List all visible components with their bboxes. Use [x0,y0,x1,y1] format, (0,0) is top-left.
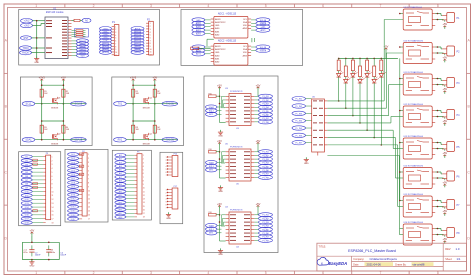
svg-text:DO5: DO5 [71,170,75,172]
net flags around U2 [192,18,270,36]
connector P14 header [166,153,178,177]
svg-text:TXD0: TXD0 [22,47,29,50]
group box connector P3 [19,152,61,226]
wire relay K1 to terminal [435,13,443,21]
svg-text:8: 8 [143,180,144,182]
svg-text:8: 8 [52,184,53,186]
wire expander left net [219,145,258,178]
svg-text:8: 8 [437,4,439,8]
svg-text:3: 3 [52,164,53,166]
svg-text:DO1: DO1 [71,154,75,156]
svg-text:DO11: DO11 [71,195,76,197]
svg-text:16: 16 [143,209,145,211]
transistor Q1 [143,97,152,110]
power flag +5V LED bus [384,45,389,59]
svg-text:1: 1 [115,26,116,28]
net flag RX1 [114,137,127,142]
svg-text:12: 12 [52,199,54,201]
net flag SDA1B [71,137,87,142]
power flag +5V right of U4 [256,202,261,209]
power flag +3V3 [39,76,46,83]
svg-text:14: 14 [143,202,145,204]
svg-text:BSS138: BSS138 [51,108,58,110]
rev text [445,247,460,251]
svg-text:5: 5 [52,172,53,174]
svg-text:DO13: DO13 [71,203,76,205]
svg-text:7: 7 [150,40,151,42]
svg-text:AI13: AI13 [119,198,123,201]
resistor R13 LED series [351,58,354,73]
wire LED5 to driver row [366,77,368,131]
svg-text:16: 16 [52,215,54,217]
svg-text:AI9: AI9 [119,183,122,186]
svg-text:18: 18 [143,217,145,219]
op-amp U6 ULN2003 [312,97,328,156]
svg-text:8: 8 [88,182,89,184]
power flag +5V [152,76,157,83]
svg-text:CrisElectronicProjects: CrisElectronicProjects [370,257,398,261]
svg-text:100nF: 100nF [60,255,66,257]
svg-text:AI4: AI4 [119,165,122,168]
capacitor C3 decoupling [46,245,67,256]
relay K2 [403,39,435,63]
svg-text:7: 7 [379,4,381,8]
svg-text:Q2: Q2 [58,134,61,136]
svg-text:6: 6 [150,37,151,39]
ground under U1 left rail [34,56,39,64]
svg-text:SCL1: SCL1 [26,103,33,106]
svg-text:PL_IN4: PL_IN4 [295,121,303,123]
group box I/O expanders [204,76,278,253]
wire relay K8 to terminal [435,228,443,236]
svg-text:AI2: AI2 [119,158,122,161]
svg-text:ADC2 - ADS1115: ADC2 - ADS1115 [218,39,237,42]
wire level shifter net [126,82,178,140]
wire LED1 to driver row [338,77,340,102]
svg-text:PL_IN2: PL_IN2 [295,106,303,108]
net flag column right of U4 [254,213,272,243]
wire power filter loop [22,235,59,260]
svg-text:DI17: DI17 [25,219,29,221]
LED D2 [344,77,351,83]
svg-text:4: 4 [207,4,209,8]
resistor R_A0 and net flag A0 [72,18,92,22]
svg-text:6: 6 [322,271,324,275]
svg-text:470u: 470u [23,252,27,254]
wire +5V LED bus [338,58,398,60]
svg-text:DI4: DI4 [25,168,28,170]
svg-text:DO17: DO17 [71,219,76,221]
svg-text:Sheet:: Sheet: [445,258,452,261]
group box level shifter [20,77,92,146]
svg-text:11: 11 [52,195,54,197]
svg-text:4: 4 [207,271,209,275]
svg-text:U15 RUT24AF/ZB-H4: U15 RUT24AF/ZB-H4 [404,193,424,196]
svg-text:REV:: REV: [445,248,451,251]
svg-text:1: 1 [35,4,37,8]
relay K1 [403,6,435,30]
svg-text:BSS138: BSS138 [143,144,150,146]
svg-text:9: 9 [88,186,89,188]
svg-text:AI15: AI15 [119,205,123,208]
svg-text:R10: R10 [209,149,212,151]
resistor R2 pull-up [153,89,161,97]
svg-text:10: 10 [88,190,90,192]
power flag +5V relay K8 [442,235,447,244]
net flag TXD [20,46,32,50]
net flag TX1 [114,101,127,106]
title block frame [317,243,467,271]
op-amp U3 ADS1115 [211,39,251,65]
net flag column PL_IN [292,97,312,145]
resistor R1 pull-up [132,89,140,97]
svg-text:DO4: DO4 [71,166,75,168]
wire relay K6 to terminal [435,171,443,179]
svg-text:6: 6 [166,172,167,174]
svg-text:DI8: DI8 [25,184,28,186]
wire level shifter net [35,82,87,140]
svg-text:SDA1B: SDA1B [260,49,267,52]
svg-text:Q2: Q2 [149,134,152,136]
svg-text:1: 1 [143,155,144,157]
resistor R2 pull-up [62,89,70,97]
connector P1 header [112,21,119,57]
svg-text:TITLE:: TITLE: [319,245,327,248]
svg-text:2: 2 [166,160,167,162]
svg-text:2: 2 [166,192,167,194]
net flag SCL1B [71,101,87,106]
svg-text:15: 15 [143,206,145,208]
svg-text:5: 5 [166,169,167,171]
svg-text:4: 4 [143,166,144,168]
wire relay K5 to terminal [435,142,443,150]
svg-text:DO10: DO10 [71,191,76,193]
svg-text:PCF8574T/3: PCF8574T/3 [230,147,243,149]
ground below U5 [218,185,223,193]
power flag +5V relay K1 [442,20,447,29]
svg-text:SCL1B: SCL1B [75,103,83,106]
svg-text:VDD: VDD [243,25,248,27]
transistor Q2 [143,133,152,146]
svg-text:GND: GND [29,265,34,267]
svg-text:5: 5 [150,35,151,37]
net flag column left of U3 [206,105,222,117]
svg-text:11: 11 [143,191,145,193]
svg-text:3: 3 [150,4,152,8]
connector P5 terminal block [442,142,460,152]
title block yellow date cell [365,262,434,266]
connector P1 terminal block [442,13,460,23]
svg-text:RX1: RX1 [118,139,123,142]
svg-text:7: 7 [166,207,167,209]
svg-text:6: 6 [143,173,144,175]
svg-text:RST: RST [24,37,29,40]
sheet text [445,257,461,261]
net flag column 2 [100,27,112,55]
relay K8 [403,221,435,245]
svg-text:6: 6 [166,204,167,206]
net flag +3V3 [21,19,33,28]
svg-text:DO16: DO16 [71,215,76,217]
svg-text:13: 13 [143,199,145,201]
ground below U4 [218,248,223,256]
svg-text:3: 3 [166,195,167,197]
svg-text:DO15: DO15 [71,211,76,213]
resistor R16 LED series [373,58,376,79]
svg-text:AI3: AI3 [119,161,122,164]
svg-text:DI10: DI10 [25,191,29,193]
net flags around U3 [192,45,270,56]
svg-text:3: 3 [88,162,89,164]
svg-text:100nF: 100nF [35,255,41,257]
svg-text:GPIO13: GPIO13 [102,52,110,54]
svg-text:U10 RUT24AF/ZB-H4: U10 RUT24AF/ZB-H4 [404,39,424,42]
wire relay +5V rail [399,13,403,229]
svg-text:9: 9 [143,184,144,186]
title text [319,245,396,253]
svg-text:PL_IN6: PL_IN6 [295,135,303,137]
wire relay K7 to terminal [435,200,443,208]
wire LED4 to driver row [359,83,361,124]
svg-text:9: 9 [115,49,116,51]
svg-text:7: 7 [52,180,53,182]
svg-text:ADC0: ADC0 [135,28,141,31]
svg-text:4: 4 [52,168,53,170]
resistor R pull near U4 [209,212,220,216]
relay K6 [403,164,435,188]
svg-text:7: 7 [379,271,381,275]
power flag +5V right of U5 [256,139,261,146]
svg-text:DO9: DO9 [71,187,75,189]
svg-text:SDA1: SDA1 [25,139,32,142]
svg-text:DO14: DO14 [71,207,76,209]
svg-text:1: 1 [166,157,167,159]
svg-text:ALERT/RDY: ALERT/RDY [215,21,226,24]
svg-text:DI9: DI9 [25,188,28,190]
svg-text:7: 7 [88,178,89,180]
svg-text:VDD: VDD [243,52,248,54]
resistor column P3 [33,159,38,212]
LED D5 [365,71,372,77]
svg-text:DI16: DI16 [25,215,29,217]
net flag TX1OB [162,101,178,106]
transistor Q2 [51,133,60,146]
svg-text:GPIO4: GPIO4 [134,52,141,54]
resistor R4 pull-up [62,125,70,133]
svg-text:via-cris88: via-cris88 [413,262,425,266]
svg-text:AIN2: AIN2 [215,61,219,64]
svg-text:2: 2 [93,271,95,275]
svg-text:DI14: DI14 [25,207,29,209]
relay K5 [403,135,435,159]
svg-text:PL_IN1: PL_IN1 [295,99,303,101]
relay K7 [403,193,435,217]
svg-text:BSS138: BSS138 [51,144,58,146]
svg-text:14: 14 [52,207,54,209]
group box ESP8266 section [19,10,160,66]
resistor R3 pull-up [40,125,48,133]
wire driver output rows [327,101,397,145]
svg-text:6: 6 [88,174,89,176]
wire LED2 to driver row [345,83,347,109]
svg-text:AI7: AI7 [119,176,122,179]
resistor R11 LED series [337,58,340,73]
svg-text:11: 11 [88,194,90,196]
svg-text:2021-04-06: 2021-04-06 [367,262,382,266]
power flag +5V left of U4 [217,202,222,209]
svg-text:8: 8 [115,46,116,48]
svg-text:2: 2 [115,29,116,31]
svg-text:6: 6 [52,176,53,178]
connector P6 terminal block [442,171,460,181]
ground in aux header box [166,212,171,220]
svg-text:7: 7 [166,175,167,177]
svg-text:3: 3 [150,271,152,275]
svg-text:9: 9 [150,46,151,48]
svg-text:3: 3 [115,32,116,34]
power flag +5V relay K5 [442,149,447,158]
svg-text:DI3: DI3 [25,164,28,166]
resistor R4 pull-up [153,125,161,133]
power flag +5V relay K6 [442,178,447,187]
svg-text:DO2: DO2 [71,158,75,160]
svg-text:U9 RUT24AF/ZB-H4: U9 RUT24AF/ZB-H4 [404,6,423,9]
svg-text:2: 2 [88,158,89,160]
svg-text:1: 1 [88,154,89,156]
svg-text:3: 3 [150,29,151,31]
svg-text:5: 5 [88,170,89,172]
svg-text:U1: U1 [53,6,57,10]
net flag SCL1 [22,101,35,106]
svg-text:Q1: Q1 [149,98,152,100]
svg-text:AI17: AI17 [119,212,123,215]
svg-text:3: 3 [166,163,167,165]
svg-text:Date:: Date: [353,263,359,266]
svg-text:12: 12 [88,199,90,201]
svg-text:DO3: DO3 [71,162,75,164]
svg-text:DI18: DI18 [25,223,29,225]
svg-text:1: 1 [52,156,53,158]
wire LED3 to driver row [352,77,354,116]
LED D3 [351,71,358,77]
svg-text:7: 7 [143,177,144,179]
svg-text:16: 16 [88,215,90,217]
svg-text:5: 5 [265,271,267,275]
svg-text:DI11: DI11 [25,195,29,197]
svg-text:AIN2: AIN2 [215,33,219,36]
group box aux headers [160,152,183,223]
svg-text:PL_IN3: PL_IN3 [295,113,303,115]
connector P3 header [43,153,53,224]
drawn-by text [395,262,425,266]
svg-text:GND: GND [215,25,220,27]
svg-text:AI11: AI11 [119,190,123,193]
svg-text:R10: R10 [209,94,212,96]
svg-text:AIN1: AIN1 [215,30,219,33]
svg-text:U16 RUT24AF/ZB-H4: U16 RUT24AF/ZB-H4 [404,221,424,224]
svg-text:U13 RUT24AF/ZB-H4: U13 RUT24AF/ZB-H4 [404,135,424,138]
svg-text:DO6: DO6 [71,174,75,176]
svg-text:GND: GND [215,52,220,54]
svg-text:14: 14 [88,207,90,209]
svg-text:ADDR: ADDR [215,18,221,21]
svg-text:11: 11 [150,52,152,54]
svg-text:AI6: AI6 [119,172,122,175]
svg-text:EasyEDA: EasyEDA [329,261,348,266]
svg-text:1: 1 [35,271,37,275]
op-amp U2 ADS1115 [211,12,251,38]
svg-text:ESP8266_PLC_Master Board: ESP8266_PLC_Master Board [348,249,396,253]
op-amp U5 PCF8574 [225,144,254,186]
svg-text:6: 6 [322,4,324,8]
capacitor C1 bulk [23,245,41,256]
svg-text:10: 10 [143,188,145,190]
svg-text:17: 17 [88,219,90,221]
net flag column left of U4 [206,223,222,235]
svg-text:+3V3: +3V3 [24,20,30,23]
svg-text:P1_IN8: P1_IN8 [262,122,268,124]
svg-text:AIN3: AIN3 [243,27,247,30]
svg-text:2: 2 [150,26,151,28]
svg-text:12: 12 [150,55,152,57]
net flag column right of U3 [254,94,272,124]
connector P7 terminal block [442,200,460,210]
svg-text:ADC1 - ADS1115: ADC1 - ADS1115 [218,12,237,15]
power flag +3V3 [130,76,137,83]
date text [353,262,381,266]
svg-text:1: 1 [166,189,167,191]
resistor R15 LED series [366,58,369,73]
svg-text:100n: 100n [51,252,55,254]
svg-text:10: 10 [150,49,152,51]
group box ADC section [181,10,303,66]
svg-text:DO7: DO7 [71,178,75,180]
svg-text:4: 4 [166,198,167,200]
svg-text:SCL: SCL [243,19,247,21]
svg-text:DI5: DI5 [25,172,28,174]
svg-text:12: 12 [143,195,145,197]
svg-text:6: 6 [115,41,116,43]
connector P4 header [80,151,90,221]
wire relay K3 to terminal [435,78,443,86]
net flag column P4 [68,153,80,221]
wire ESP left connections [32,20,46,58]
resistor R12 LED series [344,58,347,79]
wire expander left net [219,90,258,123]
svg-text:DO8: DO8 [71,182,75,184]
op-amp U4 PCF8574 [225,207,254,249]
svg-text:AIN0: AIN0 [215,54,219,57]
resistor R17 LED series [380,58,383,73]
net flag RXD [20,50,32,54]
svg-text:DO12: DO12 [71,199,76,201]
connector P8 terminal block [442,228,460,238]
svg-text:U14 RUT24AF/ZB-H4: U14 RUT24AF/ZB-H4 [404,164,424,167]
wire LED7 to driver row [381,77,383,146]
resistor column P4 [79,153,84,192]
op-amp U1 ESP-12F [45,6,72,58]
svg-text:8: 8 [150,43,151,45]
net flag column left of U5 [206,160,222,172]
net flag column for P2 [131,27,144,55]
connector P4 terminal block [442,110,460,120]
svg-text:PL_IN7: PL_IN7 [295,143,303,145]
svg-text:17: 17 [52,219,54,221]
svg-text:3: 3 [143,162,144,164]
wire relay K4 to terminal [435,110,443,118]
svg-text:DI13: DI13 [25,203,29,205]
net flag column right of U5 [254,150,272,180]
